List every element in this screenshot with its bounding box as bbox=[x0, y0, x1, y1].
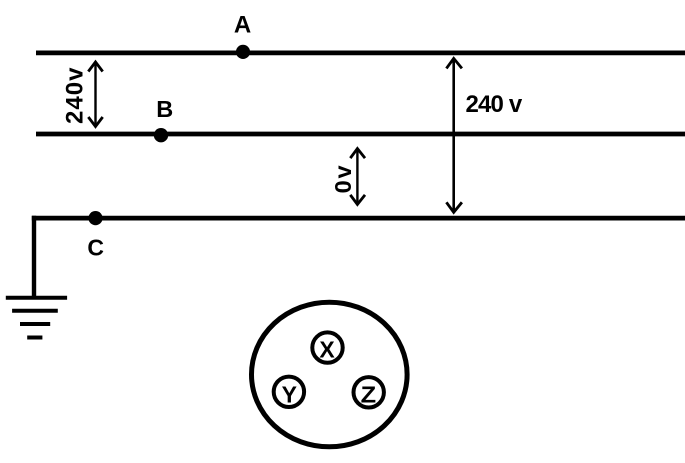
label A bbox=[234, 11, 251, 38]
pin Z circle bbox=[354, 377, 384, 407]
pin Y circle bbox=[274, 377, 304, 407]
label 0v (rotated) bbox=[330, 165, 356, 193]
wire L1 top phase line bbox=[36, 51, 685, 56]
arrow: 0v between L2 and L3 bbox=[350, 149, 365, 205]
svg-text:Z: Z bbox=[361, 381, 377, 407]
wire L3 bottom neutral line bbox=[32, 216, 685, 221]
svg-text:240v: 240v bbox=[61, 67, 88, 124]
label X bbox=[319, 337, 335, 363]
label 240 v bbox=[466, 91, 523, 118]
svg-text:240 v: 240 v bbox=[466, 91, 523, 118]
socket outlet body (large circle) bbox=[251, 302, 407, 447]
label C bbox=[87, 235, 104, 261]
label Z bbox=[361, 381, 377, 407]
label B bbox=[156, 96, 173, 122]
label 240v (rotated) bbox=[61, 67, 88, 124]
svg-text:0v: 0v bbox=[330, 165, 356, 193]
label Y bbox=[282, 381, 297, 407]
arrow: 240 v between L1 and L3 bbox=[446, 58, 462, 212]
ground (earth) symbol bbox=[6, 298, 67, 338]
node C bbox=[88, 211, 102, 225]
svg-text:Y: Y bbox=[282, 381, 297, 407]
wire: vertical drop from neutral line to earth bbox=[32, 216, 36, 298]
svg-text:B: B bbox=[156, 96, 173, 122]
pin X circle bbox=[312, 332, 342, 362]
svg-text:A: A bbox=[234, 11, 251, 38]
svg-text:X: X bbox=[319, 337, 335, 363]
svg-text:C: C bbox=[87, 235, 104, 261]
wire L2 middle phase line bbox=[36, 132, 685, 137]
node B bbox=[154, 128, 168, 142]
arrow: 240v between L1 and L2 bbox=[88, 62, 102, 127]
node A bbox=[236, 45, 250, 59]
